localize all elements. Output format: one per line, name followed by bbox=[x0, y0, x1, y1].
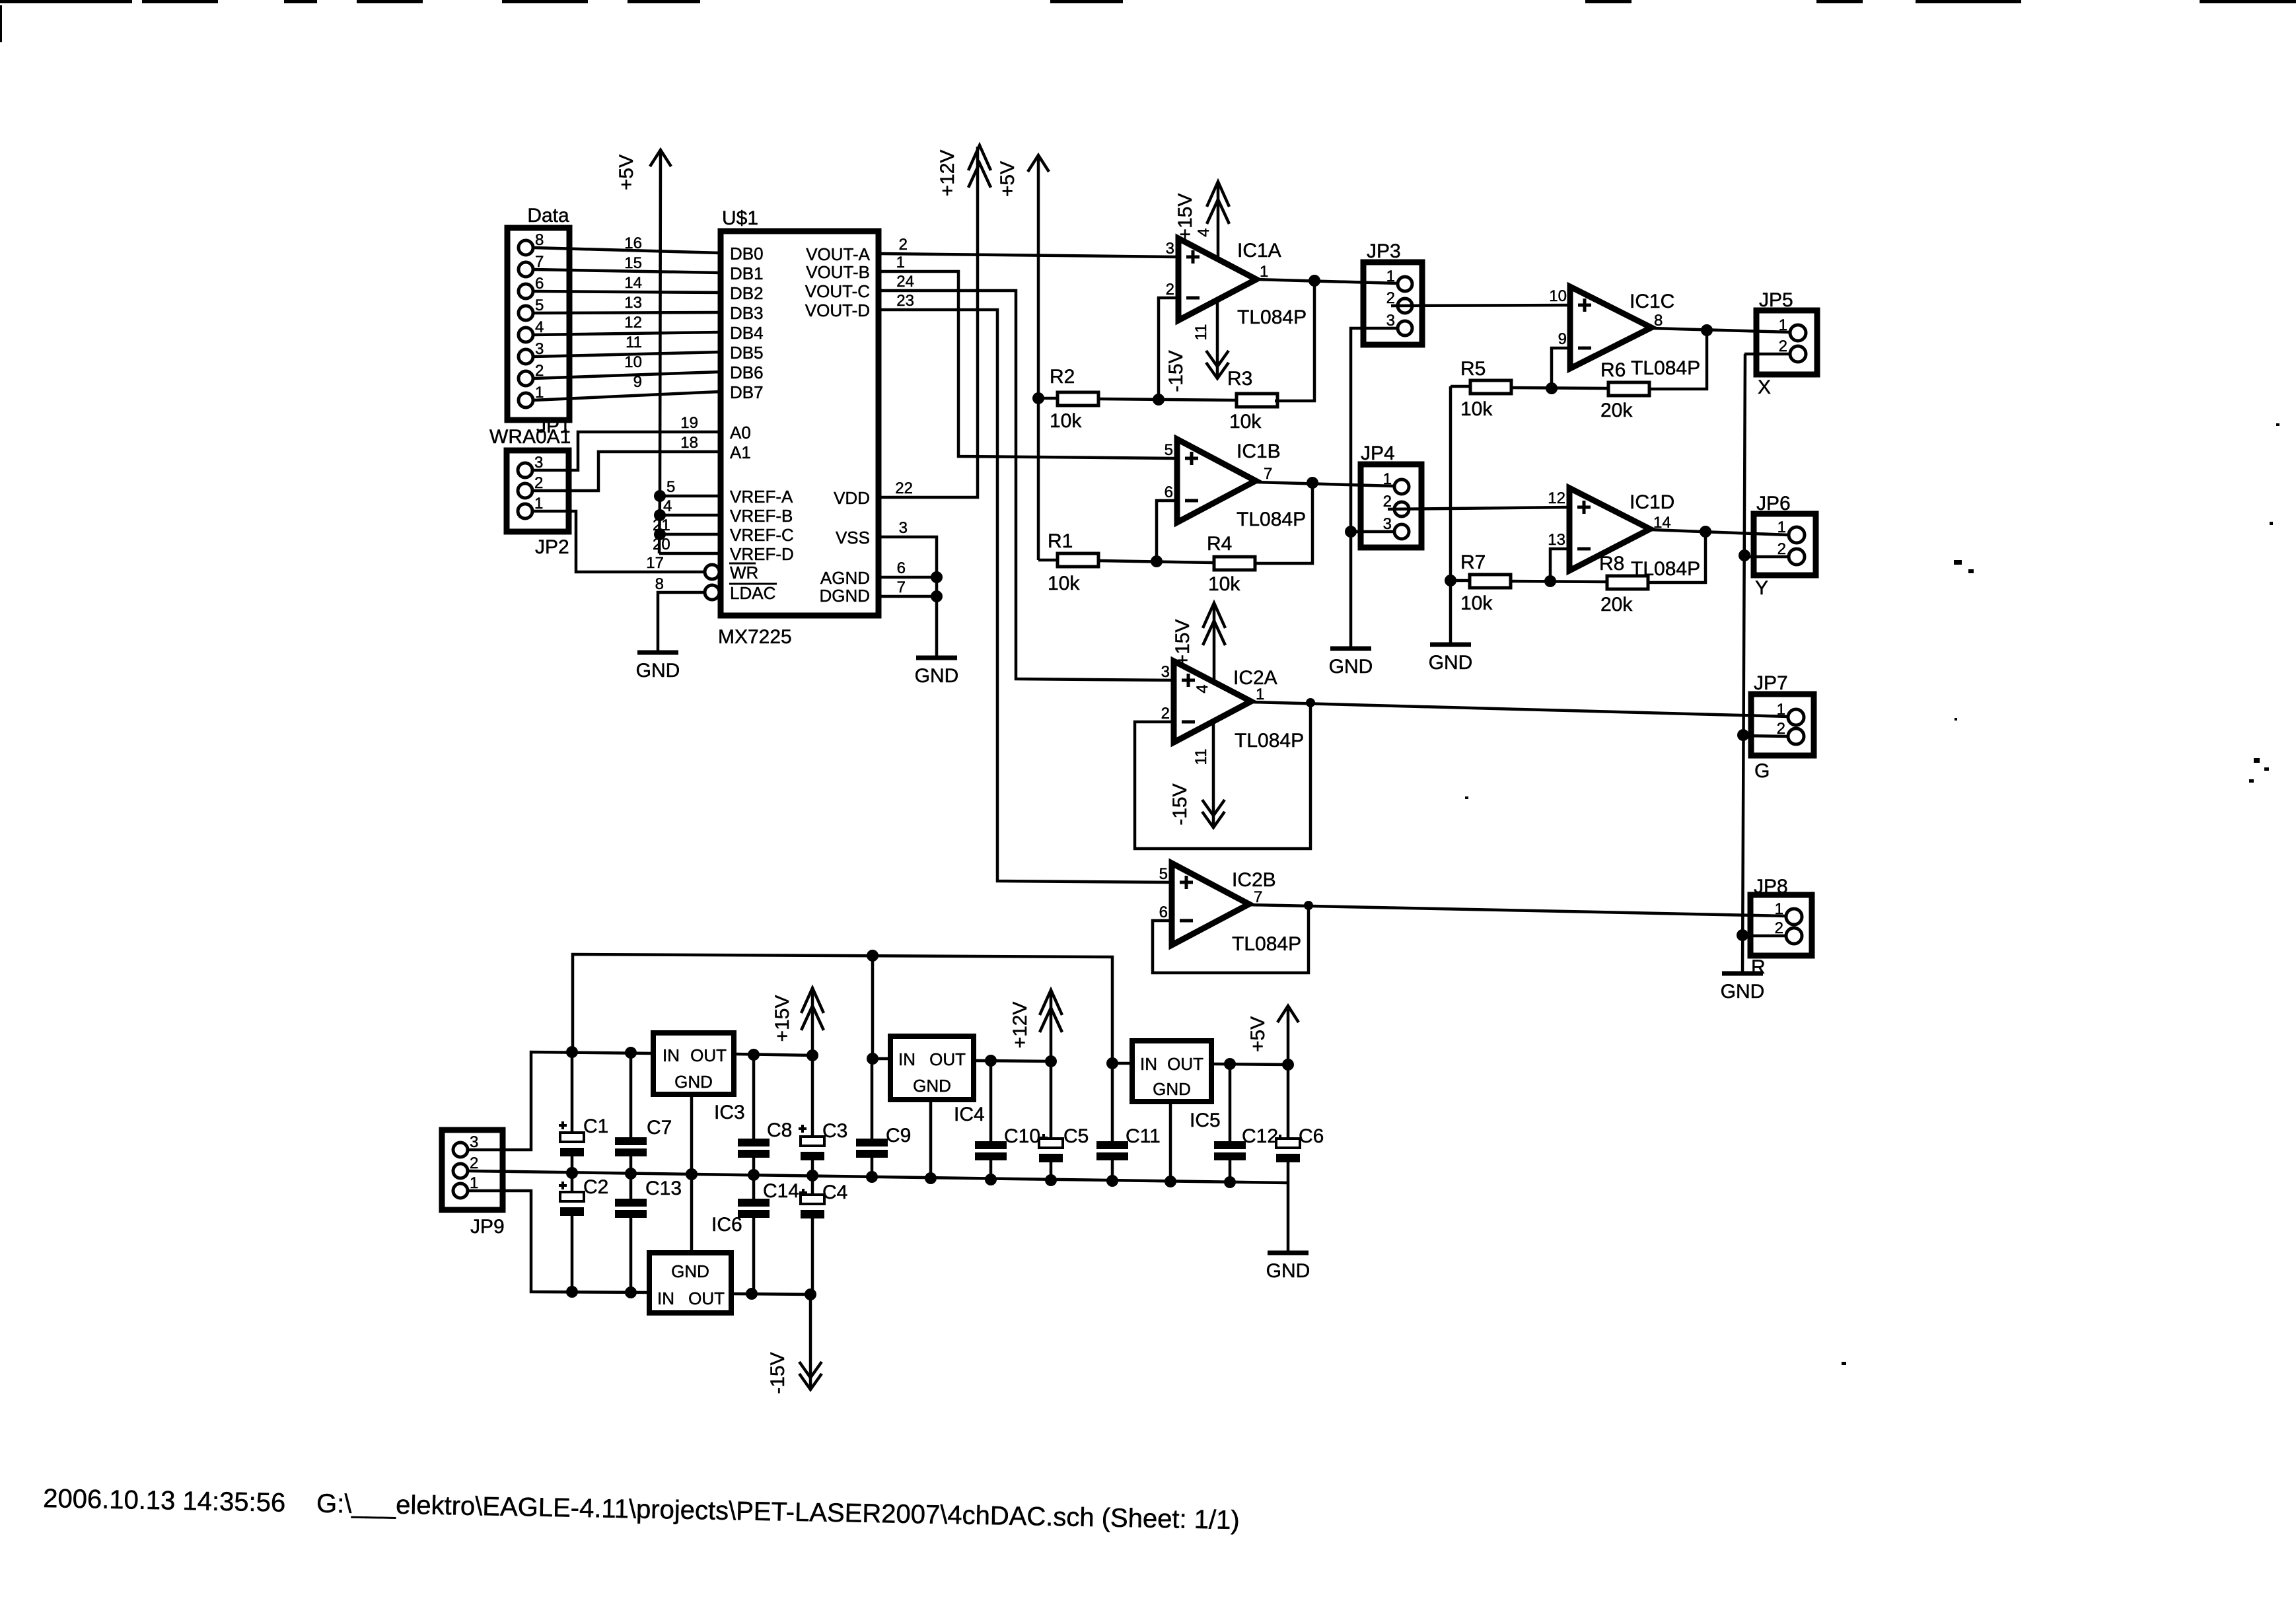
svg-text:GND: GND bbox=[671, 1261, 709, 1281]
junction C3/C4 ground rail bbox=[807, 1170, 818, 1181]
+12V supply arrow (regulator output) bbox=[1009, 990, 1062, 1061]
voltage regulator IC6 bbox=[649, 1214, 742, 1313]
connector JP6 (Y) bbox=[1754, 493, 1816, 599]
svg-text:+5V: +5V bbox=[1247, 1016, 1269, 1052]
svg-text:IC4: IC4 bbox=[954, 1104, 985, 1125]
connector JP7 (G) bbox=[1751, 672, 1814, 782]
svg-text:+5V: +5V bbox=[997, 161, 1019, 197]
svg-text:GND: GND bbox=[674, 1072, 713, 1092]
svg-text:U$1: U$1 bbox=[722, 207, 758, 229]
connector JP4 bbox=[1361, 442, 1421, 547]
junction JP6 pin2 bbox=[1739, 549, 1750, 561]
op-amp IC1C bbox=[1558, 287, 1700, 379]
wire JP5/JP6/JP7/JP8 pin2 ground line bbox=[1742, 354, 1745, 973]
voltage regulator IC5 bbox=[1132, 1041, 1221, 1131]
junction C7 top bbox=[625, 1047, 637, 1059]
voltage regulator IC3 bbox=[653, 1033, 745, 1123]
svg-text:2: 2 bbox=[1166, 281, 1174, 299]
svg-text:VOUT-B: VOUT-B bbox=[806, 262, 870, 282]
+5V supply arrow (VREF rail) bbox=[616, 150, 671, 190]
svg-text:DB7: DB7 bbox=[730, 382, 764, 402]
-15V supply arrow (regulator output) bbox=[767, 1294, 822, 1394]
-15V arrow (IC1A pin11) bbox=[1165, 300, 1229, 392]
svg-text:OUT: OUT bbox=[688, 1288, 725, 1308]
svg-text:2006.10.13 14:35:56: 2006.10.13 14:35:56 bbox=[43, 1484, 286, 1518]
capacitor C12 bbox=[1214, 1064, 1284, 1181]
svg-text:10: 10 bbox=[624, 353, 642, 371]
svg-text:A1: A1 bbox=[730, 442, 751, 462]
junction IC4 GND bbox=[925, 1172, 937, 1184]
svg-text:IC2B: IC2B bbox=[1232, 869, 1276, 891]
svg-text:3: 3 bbox=[1161, 663, 1170, 681]
svg-text:13: 13 bbox=[624, 294, 642, 312]
wire JP9 pin3 to +input rail bbox=[468, 1052, 653, 1150]
junction C9 ground rail bbox=[866, 1171, 878, 1183]
svg-text:DGND: DGND bbox=[819, 586, 870, 606]
wire +5V rail down to R2/R1 bbox=[1037, 157, 1040, 560]
svg-text:IN: IN bbox=[663, 1045, 680, 1065]
junction R1-R4 node bbox=[1151, 555, 1163, 567]
svg-text:1: 1 bbox=[1383, 470, 1392, 488]
svg-text:IC1B: IC1B bbox=[1237, 441, 1281, 462]
junction IC2B feedback-output bbox=[1304, 901, 1313, 910]
svg-text:JP9: JP9 bbox=[470, 1216, 505, 1238]
svg-text:X: X bbox=[1758, 376, 1771, 398]
svg-text:10k: 10k bbox=[1050, 410, 1082, 432]
junction R7-R8 node bbox=[1544, 575, 1556, 587]
svg-text:7: 7 bbox=[897, 579, 906, 596]
svg-text:+15V: +15V bbox=[1172, 619, 1194, 666]
svg-text:JP4: JP4 bbox=[1361, 442, 1395, 464]
wire R5-R6 node bbox=[1511, 388, 1608, 388]
svg-text:R1: R1 bbox=[1048, 530, 1073, 552]
wire IC5 IN bbox=[1112, 1062, 1132, 1065]
junction IC1C output bbox=[1701, 324, 1713, 336]
svg-text:IN: IN bbox=[898, 1049, 915, 1069]
wire IC2A output to JP7 pin1 bbox=[1251, 702, 1789, 717]
resistor R4 bbox=[1207, 483, 1312, 595]
connector JP3 bbox=[1363, 240, 1422, 345]
plot timestamp and file path text bbox=[43, 1484, 1240, 1535]
op-amp IC1A bbox=[1166, 238, 1307, 328]
wire IC2B feedback loop bbox=[1153, 905, 1309, 973]
svg-text:17: 17 bbox=[646, 554, 664, 572]
-15V arrow (IC2A pin11) bbox=[1169, 723, 1225, 828]
svg-text:10: 10 bbox=[1549, 287, 1567, 305]
junction VREF-A bbox=[654, 490, 666, 502]
svg-text:2: 2 bbox=[1161, 705, 1170, 723]
svg-text:LDAC: LDAC bbox=[730, 583, 775, 603]
svg-text:OUT: OUT bbox=[690, 1045, 727, 1065]
svg-text:VOUT-D: VOUT-D bbox=[805, 300, 870, 320]
svg-text:2: 2 bbox=[899, 236, 908, 254]
junction C11 top / IC5 IN bbox=[1106, 1057, 1118, 1069]
wire R5/R7 rail to GND bbox=[1449, 386, 1453, 645]
svg-text:5: 5 bbox=[1159, 865, 1168, 883]
svg-text:DB1: DB1 bbox=[730, 264, 764, 283]
junction IC5 GND bbox=[1165, 1176, 1176, 1187]
junction C12 top bbox=[1224, 1058, 1236, 1070]
svg-text:22: 22 bbox=[895, 479, 913, 497]
svg-text:IC1D: IC1D bbox=[1630, 491, 1674, 513]
wire IC5 GND stub bbox=[1169, 1102, 1172, 1181]
svg-text:+12V: +12V bbox=[1009, 1002, 1031, 1049]
svg-text:15: 15 bbox=[624, 254, 642, 272]
svg-text:C14: C14 bbox=[763, 1180, 799, 1202]
junction ground rail at C1/C2 bbox=[566, 1167, 578, 1179]
svg-text:C11: C11 bbox=[1126, 1125, 1161, 1147]
svg-text:C1: C1 bbox=[583, 1115, 608, 1137]
wire JP9 pin2 to GND rail bbox=[468, 1171, 1288, 1183]
svg-text:5: 5 bbox=[1165, 441, 1173, 459]
junction IC1B output bbox=[1307, 477, 1318, 489]
svg-text:C5: C5 bbox=[1063, 1125, 1089, 1147]
svg-text:1: 1 bbox=[1777, 701, 1785, 719]
svg-text:DB4: DB4 bbox=[730, 323, 764, 343]
connector JP2 (WRA0A1) bbox=[489, 426, 571, 558]
svg-text:8: 8 bbox=[655, 575, 664, 593]
wire IC4 OUT +12V rail bbox=[974, 1061, 1051, 1061]
junction GND rail at R7 bbox=[1445, 575, 1456, 586]
svg-text:C10: C10 bbox=[1004, 1125, 1040, 1147]
capacitor C1 bbox=[559, 1052, 608, 1173]
svg-text:11: 11 bbox=[1192, 749, 1210, 765]
capacitor C6 bbox=[1276, 1065, 1324, 1183]
svg-text:TL084P: TL084P bbox=[1237, 509, 1306, 530]
svg-text:GND: GND bbox=[1329, 656, 1373, 678]
ground (JP3/JP4) bbox=[1330, 647, 1371, 651]
svg-text:R3: R3 bbox=[1227, 368, 1252, 390]
wire IC5 OUT +5V rail bbox=[1211, 1064, 1288, 1065]
junction bridge-IC4 bbox=[867, 950, 879, 962]
wire ground rail to GND symbol bbox=[1287, 1183, 1290, 1253]
wire IC1B output to JP4 pin1 bbox=[1256, 482, 1394, 486]
connector JP1 (Data) bbox=[507, 205, 571, 437]
svg-text:TL084P: TL084P bbox=[1237, 306, 1307, 328]
svg-text:10k: 10k bbox=[1208, 573, 1240, 595]
svg-text:GND: GND bbox=[913, 1076, 951, 1096]
capacitor C7 bbox=[615, 1053, 672, 1174]
svg-text:IC1C: IC1C bbox=[1630, 291, 1674, 312]
svg-text:G: G bbox=[1754, 760, 1770, 782]
svg-text:GND: GND bbox=[1429, 652, 1473, 674]
junction DGND bbox=[931, 590, 943, 602]
wire IC1C output to JP5 bbox=[1651, 328, 1790, 332]
wire IC1C inverting input bbox=[1552, 348, 1570, 388]
resistor R6 bbox=[1600, 330, 1707, 421]
svg-text:-15V: -15V bbox=[767, 1352, 789, 1393]
svg-text:GND: GND bbox=[1266, 1260, 1310, 1282]
connector JP5 (X) bbox=[1756, 289, 1817, 398]
capacitor C11 bbox=[1096, 1063, 1161, 1181]
svg-text:R4: R4 bbox=[1207, 533, 1232, 555]
svg-text:11: 11 bbox=[1192, 324, 1210, 341]
wire IC1D inverting input bbox=[1550, 549, 1569, 581]
svg-text:VSS: VSS bbox=[836, 528, 870, 547]
junction C7/C13 ground rail bbox=[625, 1168, 637, 1180]
svg-text:TL084P: TL084P bbox=[1235, 730, 1304, 752]
svg-text:16: 16 bbox=[624, 234, 642, 252]
svg-text:C2: C2 bbox=[583, 1176, 608, 1198]
+5V supply arrow (regulator output) bbox=[1247, 1006, 1299, 1065]
junction C12 ground rail bbox=[1224, 1176, 1236, 1188]
svg-text:IN: IN bbox=[657, 1288, 674, 1308]
junction C5 ground rail bbox=[1045, 1174, 1057, 1186]
junction ground rail at IC3/IC6 GND bbox=[686, 1168, 698, 1180]
svg-text:VOUT-C: VOUT-C bbox=[805, 281, 870, 301]
wire R1/R4 net to IC1B inverting input bbox=[1099, 501, 1214, 563]
connector JP9 bbox=[442, 1130, 505, 1238]
junction R5-R6 node bbox=[1546, 382, 1558, 394]
op-amp IC1B bbox=[1165, 439, 1306, 530]
scan artifact: top edge band bbox=[0, 0, 132, 3]
ground (R5/R7) bbox=[1430, 643, 1471, 647]
+15V arrow (IC2A pin4) bbox=[1172, 603, 1225, 693]
capacitor C2 bbox=[559, 1173, 608, 1292]
svg-text:DB5: DB5 bbox=[730, 343, 764, 363]
junction C9 top / IC4 IN bbox=[867, 1053, 879, 1065]
svg-text:6: 6 bbox=[1159, 903, 1168, 921]
ground (JP8 R) bbox=[1722, 971, 1763, 976]
svg-text:MX7225: MX7225 bbox=[718, 626, 792, 648]
capacitor C4 bbox=[801, 1176, 847, 1294]
+12V supply arrow bbox=[937, 145, 991, 196]
svg-text:18: 18 bbox=[680, 434, 698, 452]
svg-text:Y: Y bbox=[1755, 577, 1768, 599]
wire JP2 pin2 to A1 (pin 18) bbox=[532, 434, 721, 491]
junction C10 ground rail bbox=[985, 1174, 997, 1185]
junction +15V corner bbox=[807, 1049, 818, 1061]
svg-text:C6: C6 bbox=[1299, 1125, 1324, 1147]
svg-text:7: 7 bbox=[1264, 465, 1272, 483]
svg-text:19: 19 bbox=[680, 414, 698, 432]
junction IC2A feedback-output bbox=[1306, 698, 1315, 707]
svg-text:JP3: JP3 bbox=[1367, 240, 1401, 262]
junction C10 top bbox=[985, 1055, 997, 1067]
svg-text:10k: 10k bbox=[1229, 411, 1262, 433]
IC U$1 MX7225 DAC bbox=[718, 207, 879, 648]
wire JP2 pin1 to WR (pin 17) bbox=[532, 511, 705, 572]
junction VREF-B bbox=[654, 509, 666, 521]
svg-text:VDD: VDD bbox=[834, 488, 870, 508]
wire IC2A feedback loop bbox=[1135, 703, 1310, 849]
junction C11 ground rail bbox=[1106, 1175, 1118, 1187]
junction IC1D output bbox=[1700, 526, 1711, 538]
op-amp IC2B bbox=[1159, 863, 1301, 955]
svg-text:C12: C12 bbox=[1242, 1125, 1278, 1147]
wire IC1A output to JP3 pin1 bbox=[1256, 279, 1397, 283]
svg-text:DB0: DB0 bbox=[730, 244, 764, 264]
svg-text:C9: C9 bbox=[886, 1125, 911, 1146]
wire R7-R8 node bbox=[1511, 581, 1607, 582]
svg-text:1: 1 bbox=[1777, 518, 1786, 536]
svg-text:Data: Data bbox=[527, 205, 569, 227]
scan artifact: specks right side bbox=[1954, 560, 1962, 565]
wire VSS pin3 to ground rail bbox=[879, 519, 937, 658]
wire JP1 pins to U$1 DB0-DB7 bbox=[533, 234, 721, 400]
svg-text:4: 4 bbox=[1194, 684, 1211, 693]
svg-text:20k: 20k bbox=[1600, 400, 1633, 421]
svg-text:IC1A: IC1A bbox=[1237, 240, 1281, 262]
op-amp IC1D bbox=[1548, 488, 1700, 580]
resistor R7 bbox=[1449, 551, 1511, 614]
svg-text:WR: WR bbox=[730, 563, 758, 582]
wire VOUT-D pin23 to IC2B + bbox=[879, 292, 1172, 882]
wire VDD pin22 to +12V bbox=[879, 147, 978, 497]
svg-text:23: 23 bbox=[896, 292, 914, 310]
svg-text:10k: 10k bbox=[1460, 592, 1493, 614]
svg-text:OUT: OUT bbox=[929, 1049, 966, 1069]
capacitor C14 bbox=[738, 1175, 807, 1294]
svg-text:WRA0A1: WRA0A1 bbox=[489, 426, 571, 448]
pin 17 WR inversion bubble bbox=[705, 565, 719, 579]
wire bridge branch to IC4 IN bbox=[871, 956, 875, 1059]
svg-text:13: 13 bbox=[1548, 531, 1565, 549]
junction +12V corner bbox=[1045, 1055, 1057, 1067]
wire JP8 pin2 to GND line bbox=[1742, 934, 1786, 938]
wire AGND pin6 bbox=[879, 559, 937, 577]
wire JP6 pin2 to GND line bbox=[1744, 555, 1789, 559]
svg-text:6: 6 bbox=[897, 559, 906, 577]
junction JP8 pin2 bbox=[1737, 929, 1748, 941]
svg-text:14: 14 bbox=[624, 274, 642, 292]
svg-text:5: 5 bbox=[666, 478, 675, 496]
ground (LDAC) bbox=[637, 651, 678, 655]
svg-text:DB6: DB6 bbox=[730, 363, 764, 382]
wire JP2 pin3 to A0 (pin 19) bbox=[532, 414, 721, 470]
+15V arrow (IC1A pin4) bbox=[1174, 182, 1229, 259]
resistor R1 bbox=[1038, 530, 1098, 594]
junction IC3/IC6 GND bbox=[686, 1168, 698, 1180]
junction C4 bottom / -15V corner bbox=[805, 1288, 816, 1300]
svg-text:R8: R8 bbox=[1599, 553, 1624, 575]
wire VOUT-A pin2 to IC1A + bbox=[879, 236, 1178, 257]
svg-text:C8: C8 bbox=[767, 1119, 792, 1141]
svg-text:TL084P: TL084P bbox=[1232, 933, 1301, 955]
wire JP7 pin2 to GND line bbox=[1742, 736, 1788, 736]
svg-text:1: 1 bbox=[896, 254, 905, 271]
capacitor C5 bbox=[1039, 1061, 1089, 1180]
svg-text:-15V: -15V bbox=[1165, 350, 1187, 392]
wire LDAC to GND bbox=[658, 592, 705, 652]
svg-text:3: 3 bbox=[899, 519, 908, 537]
svg-text:TL084P: TL084P bbox=[1631, 357, 1700, 379]
junction C2 bottom bbox=[566, 1286, 578, 1298]
capacitor C13 bbox=[615, 1174, 682, 1292]
junction R2-R3 node bbox=[1153, 394, 1165, 405]
svg-text:C4: C4 bbox=[822, 1181, 847, 1203]
wire JP3 pin2 to IC1C + bbox=[1391, 287, 1570, 306]
svg-text:6: 6 bbox=[1165, 483, 1173, 501]
svg-text:9: 9 bbox=[633, 373, 642, 391]
junction JP4 pin3 bbox=[1345, 526, 1357, 538]
wire IC4 GND stub bbox=[929, 1100, 933, 1178]
junction C1/C2 ground rail bbox=[566, 1167, 578, 1179]
wire IC3 OUT +15V rail bbox=[734, 1054, 812, 1055]
svg-text:12: 12 bbox=[624, 314, 642, 332]
svg-text:1: 1 bbox=[1779, 316, 1787, 334]
svg-text:+5V: +5V bbox=[616, 155, 637, 190]
svg-text:VREF-C: VREF-C bbox=[730, 525, 794, 545]
svg-text:1: 1 bbox=[1386, 267, 1395, 285]
ground (U$1 AGND/DGND) bbox=[916, 656, 957, 660]
op-amp IC2A bbox=[1161, 661, 1304, 752]
svg-text:10k: 10k bbox=[1460, 398, 1493, 420]
svg-text:+15V: +15V bbox=[771, 995, 793, 1042]
svg-text:GND: GND bbox=[636, 660, 680, 682]
svg-text:GND: GND bbox=[1721, 981, 1765, 1003]
svg-text:12: 12 bbox=[1548, 489, 1565, 507]
svg-text:DB2: DB2 bbox=[730, 283, 764, 303]
svg-text:-15V: -15V bbox=[1169, 783, 1191, 825]
resistor R8 bbox=[1599, 532, 1705, 616]
junction C1 top bbox=[566, 1046, 578, 1058]
pin 8 LDAC inversion bubble bbox=[705, 585, 719, 600]
connector JP8 (R) bbox=[1750, 876, 1812, 978]
wire DGND pin7 bbox=[879, 579, 937, 596]
resistor R5 bbox=[1451, 358, 1511, 420]
ground (power section) bbox=[1268, 1251, 1309, 1255]
capacitor C8 bbox=[738, 1055, 792, 1175]
capacitor C3 bbox=[799, 1055, 847, 1176]
svg-text:+15V: +15V bbox=[1174, 194, 1196, 240]
svg-text:3: 3 bbox=[1166, 240, 1174, 258]
junction JP7 pin2 bbox=[1737, 729, 1749, 741]
svg-text:24: 24 bbox=[896, 273, 914, 291]
wire JP5 pin2 to GND line bbox=[1744, 353, 1790, 356]
wire raw + bridge to IC4/IC5 inputs bbox=[573, 954, 1112, 1063]
svg-text:11: 11 bbox=[626, 334, 642, 351]
svg-text:R6: R6 bbox=[1600, 359, 1626, 381]
wire +5V rail to VREF-A/B/C/D bbox=[653, 152, 721, 553]
svg-text:DB3: DB3 bbox=[730, 303, 764, 323]
svg-text:3: 3 bbox=[1383, 515, 1392, 533]
+5V supply arrow (R1/R2 rail) bbox=[997, 155, 1049, 197]
wire R2/R3 net to IC1A inverting input bbox=[1099, 298, 1237, 400]
svg-text:A0: A0 bbox=[730, 423, 751, 442]
svg-text:VREF-D: VREF-D bbox=[730, 544, 794, 564]
wire IC2B output to JP8 pin1 bbox=[1249, 905, 1786, 916]
capacitor C10 bbox=[975, 1061, 1048, 1180]
svg-text:AGND: AGND bbox=[820, 568, 870, 588]
wire IC6 OUT -15V rail bbox=[731, 1294, 810, 1294]
junction AGND bbox=[931, 571, 943, 583]
svg-text:VREF-B: VREF-B bbox=[730, 506, 793, 526]
wire JP3 pin3 / JP4 pin3 to GND bbox=[1351, 328, 1398, 649]
svg-text:9: 9 bbox=[1558, 330, 1567, 348]
svg-text:R2: R2 bbox=[1050, 366, 1075, 388]
wire IC4 IN bbox=[873, 1057, 890, 1061]
svg-text:C3: C3 bbox=[822, 1120, 847, 1142]
wire JP9 pin1 to -input rail bbox=[468, 1191, 649, 1292]
svg-text:GND: GND bbox=[1153, 1079, 1191, 1099]
svg-text:1: 1 bbox=[1775, 900, 1783, 918]
svg-text:IN: IN bbox=[1140, 1054, 1157, 1074]
wire IC3 GND / IC6 GND to ground rail bbox=[690, 1094, 694, 1253]
+15V supply arrow (regulator output) bbox=[771, 988, 824, 1055]
svg-text:C13: C13 bbox=[645, 1178, 682, 1199]
svg-text:VREF-A: VREF-A bbox=[730, 487, 793, 507]
svg-text:VOUT-A: VOUT-A bbox=[806, 244, 870, 264]
svg-text:R7: R7 bbox=[1460, 551, 1486, 573]
svg-text:4: 4 bbox=[1195, 228, 1213, 236]
junction C8 top bbox=[748, 1049, 760, 1061]
svg-text:GND: GND bbox=[915, 665, 959, 687]
resistor R3 bbox=[1227, 281, 1314, 433]
resistor R2 bbox=[1038, 366, 1098, 432]
wire VOUT-C pin24 to IC2A + bbox=[879, 273, 1174, 680]
svg-text:IC5: IC5 bbox=[1190, 1110, 1221, 1131]
